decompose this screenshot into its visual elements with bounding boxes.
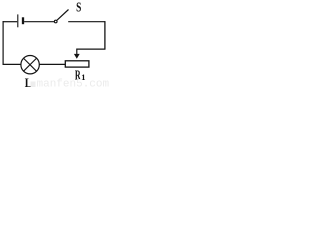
battery cell: long thin plate (positive) (17, 14, 19, 27)
switch S: lever arm (open) (57, 10, 69, 21)
rheostat wiper: vertical shaft (76, 49, 78, 56)
wire: top-left horizontal from corner to battery (3, 21, 18, 23)
watermark logo mark (31, 82, 36, 88)
resistor R1: rheostat body rectangle (65, 61, 89, 67)
wire: right vertical down the right edge (104, 21, 106, 49)
wire: horizontal from lamp to rheostat left terminal (40, 63, 66, 65)
wire: horizontal run from right edge to rheostat wiper (77, 48, 106, 50)
svg-text:manfen5.com: manfen5.com (37, 79, 110, 89)
wire: left vertical side (2, 21, 4, 65)
wire: top middle from battery to switch contact (24, 21, 54, 23)
lamp L: cross diagonal 2 (23, 58, 36, 71)
wire: top-right horizontal from switch to top-right corner (68, 21, 105, 23)
switch S: pivot contact circle (54, 20, 57, 23)
wire: left lamp lead from left edge to bulb (3, 63, 21, 65)
lamp L: bulb circle (21, 55, 39, 73)
svg-text:S: S (76, 1, 81, 16)
rheostat wiper: arrowhead pointing down (74, 54, 80, 59)
lamp L: cross diagonal 1 (23, 58, 36, 71)
battery cell: short thick plate (negative) (22, 17, 24, 24)
